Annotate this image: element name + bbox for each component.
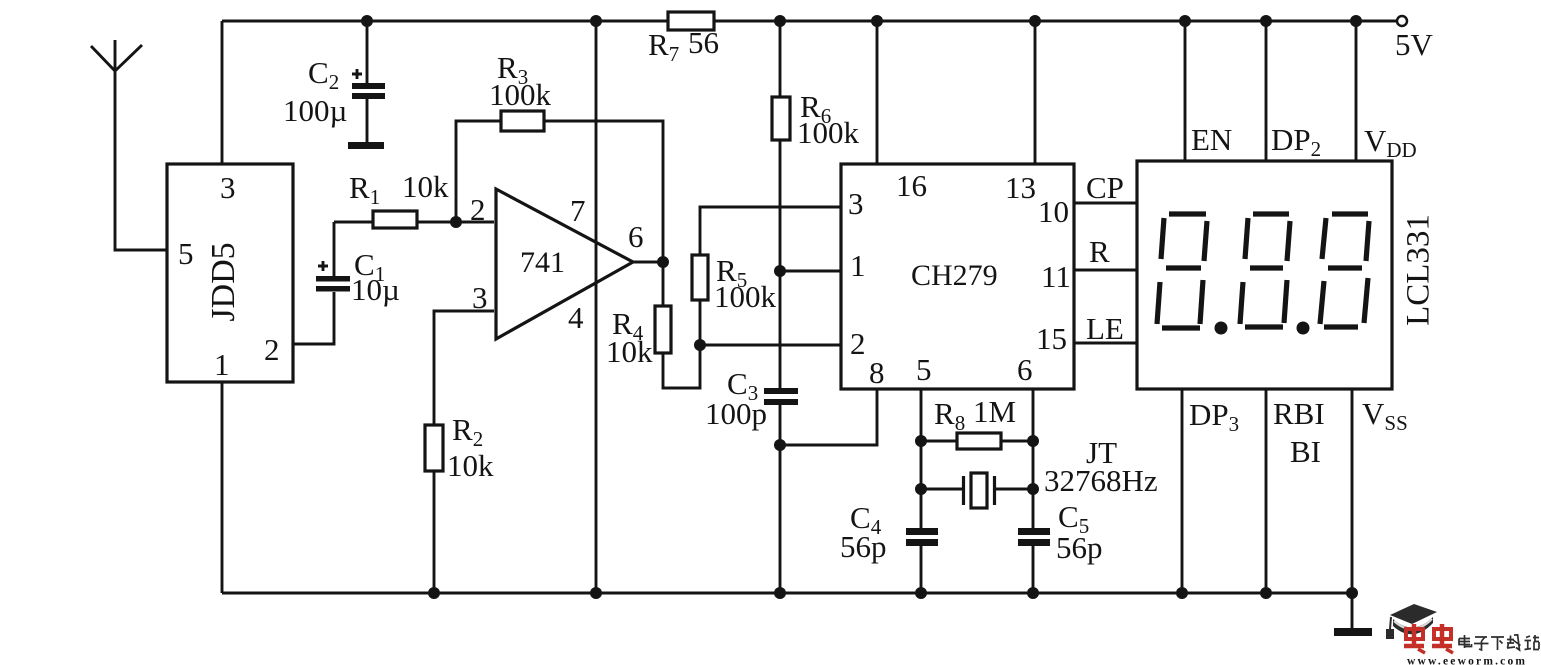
svg-text:1: 1: [850, 248, 866, 283]
node C3 pin8 junction: [774, 439, 786, 451]
svg-text:15: 15: [1036, 321, 1067, 356]
op-amp U1 741: [470, 189, 644, 339]
node R2 ground: [428, 587, 440, 599]
node power rail top: [590, 15, 602, 27]
svg-text:10k: 10k: [447, 448, 494, 483]
label R2 10k: [447, 412, 494, 483]
label R8 1M: [934, 394, 1016, 435]
svg-text:741: 741: [520, 246, 565, 279]
wire EN to rail: [1184, 21, 1187, 161]
svg-text:2: 2: [470, 192, 486, 227]
IC JDD5: [167, 164, 293, 382]
label R4 10k: [606, 306, 653, 369]
node R8 right: [1027, 435, 1039, 447]
node crystal right: [1027, 483, 1039, 495]
node C5 ground: [1027, 587, 1039, 599]
ground bar under C2: [348, 142, 384, 149]
node DP2 rail: [1260, 15, 1272, 27]
watermark chongchong red characters: [1404, 624, 1453, 653]
wire JDD5 pin3 to rail: [221, 21, 224, 164]
svg-text:100p: 100p: [705, 396, 767, 431]
svg-text:10: 10: [1038, 194, 1069, 229]
antenna: [91, 40, 167, 250]
resistor R6: [772, 21, 790, 271]
svg-text:32768Hz: 32768Hz: [1044, 463, 1158, 498]
svg-text:5V: 5V: [1395, 27, 1434, 62]
svg-text:2: 2: [850, 326, 866, 361]
wire op-amp power rail pin7 to pin4: [595, 21, 598, 593]
wire top supply rail left segment: [222, 20, 668, 23]
wire DP3 to ground rail: [1181, 389, 1184, 593]
wire JDD5 pin1 to bottom rail: [221, 382, 224, 593]
node op-amp pin2: [450, 216, 462, 228]
node R4 R5 pin2 junction: [694, 339, 706, 351]
crystal JT 32768Hz: [921, 473, 1033, 508]
svg-text:7: 7: [570, 193, 586, 228]
node top rail R6: [774, 15, 786, 27]
svg-text:10k: 10k: [606, 334, 653, 369]
resistor R7: [668, 12, 714, 30]
node VSS ground: [1346, 587, 1358, 599]
svg-text:www.eeworm.com: www.eeworm.com: [1407, 656, 1527, 665]
svg-text:3: 3: [220, 170, 236, 205]
svg-text:100k: 100k: [489, 77, 552, 112]
wire CH279 pin6 branch: [1032, 389, 1035, 593]
wire R pin11 to display: [1074, 269, 1137, 272]
node power rail bottom: [590, 587, 602, 599]
svg-text:R: R: [1089, 234, 1110, 269]
svg-text:16: 16: [896, 168, 927, 203]
resistor R8: [921, 433, 1033, 449]
wire bottom ground rail: [222, 592, 1352, 595]
label R6 100k: [797, 89, 860, 150]
svg-text:CH279: CH279: [911, 259, 998, 292]
svg-text:100k: 100k: [797, 115, 860, 150]
svg-text:BI: BI: [1290, 434, 1321, 469]
svg-text:EN: EN: [1191, 122, 1232, 157]
wire node to CH279 pin1: [780, 270, 841, 273]
svg-text:2: 2: [264, 332, 280, 367]
node R6 pin1: [774, 265, 786, 277]
label JT 32768Hz: [1044, 435, 1158, 498]
node pin16 rail: [871, 15, 883, 27]
wire op-amp pin3 input: [434, 311, 494, 425]
svg-text:JDD5: JDD5: [205, 242, 242, 321]
resistor R4: [655, 262, 671, 353]
label C2 100u: [283, 55, 347, 128]
wire VSS to ground rail: [1351, 389, 1354, 593]
svg-text:100k: 100k: [714, 279, 777, 314]
node R8 left: [915, 435, 927, 447]
node EN rail: [1179, 15, 1191, 27]
wire CH279 pin5 branch: [920, 389, 923, 593]
display decimal point 2: [1297, 322, 1310, 335]
svg-text:8: 8: [869, 355, 885, 390]
svg-text:10µ: 10µ: [351, 272, 400, 307]
wire R6 node down through C3: [779, 271, 782, 593]
label R7 56: [648, 25, 719, 66]
resistor R5: [692, 255, 708, 300]
svg-text:5: 5: [916, 352, 932, 387]
svg-text:100µ: 100µ: [283, 93, 347, 128]
node VDD rail: [1350, 15, 1362, 27]
svg-text:4: 4: [568, 300, 584, 335]
capacitor C2: [352, 21, 385, 142]
node C4 ground: [915, 587, 927, 599]
wire R2 to ground rail: [433, 471, 436, 593]
wire CP pin10 to display: [1074, 202, 1137, 205]
node DP3 ground: [1176, 587, 1188, 599]
label C5 56p: [1056, 499, 1103, 565]
resistor R2: [425, 425, 443, 471]
wire top supply rail right segment: [714, 20, 1398, 23]
node crystal left: [915, 483, 927, 495]
svg-text:6: 6: [1017, 352, 1033, 387]
wire RBI to ground rail: [1265, 389, 1268, 593]
label C4 56p: [840, 500, 887, 564]
resistor R1: [334, 211, 494, 228]
node top rail / C2: [361, 15, 373, 27]
svg-text:6: 6: [628, 219, 644, 254]
svg-text:LE: LE: [1086, 311, 1124, 346]
label C1 10u: [351, 247, 400, 307]
wire junction to CH279 pin2: [700, 344, 841, 347]
node C3 ground rail: [774, 587, 786, 599]
svg-text:RBI: RBI: [1273, 396, 1325, 431]
label R3 100k: [489, 50, 552, 112]
wire CH279 pin16 to rail: [876, 21, 879, 164]
wire R5 top to CH279 pin3: [700, 207, 841, 255]
wire CH279 pin13 to rail: [1034, 21, 1037, 164]
ground symbol: [1334, 593, 1372, 636]
svg-text:LCL331: LCL331: [1401, 214, 1437, 326]
wire DP2 to rail: [1265, 21, 1268, 161]
capacitor C1: [293, 222, 350, 344]
svg-text:56p: 56p: [840, 529, 887, 564]
svg-text:CP: CP: [1086, 170, 1124, 205]
svg-text:1M: 1M: [973, 394, 1016, 429]
capacitor C3: [764, 388, 798, 405]
svg-text:3: 3: [848, 186, 864, 221]
label R1 10k: [349, 169, 449, 209]
label C3 100p: [705, 366, 767, 431]
svg-text:10k: 10k: [402, 169, 449, 204]
svg-text:56p: 56p: [1056, 530, 1103, 565]
IC CH279: [841, 164, 1074, 390]
watermark text dianzi xiazaizhan: [1459, 634, 1539, 650]
capacitor C4: [906, 528, 938, 546]
display digit 1: [1157, 214, 1207, 328]
svg-text:56: 56: [688, 25, 719, 60]
wire R4 bottom to R5 branch: [663, 300, 700, 388]
node pin13 rail: [1029, 15, 1041, 27]
resistor R3: [501, 111, 544, 131]
svg-text:1: 1: [214, 347, 230, 382]
display decimal point 1: [1215, 322, 1228, 335]
capacitor C5: [1018, 528, 1050, 546]
svg-text:11: 11: [1041, 259, 1071, 294]
node RBI ground: [1260, 587, 1272, 599]
svg-text:5: 5: [178, 236, 194, 271]
wire LE pin15 to display: [1074, 342, 1137, 345]
wire junction to CH279 pin8: [780, 389, 877, 445]
display digit 2: [1240, 214, 1290, 327]
label R5 100k: [714, 253, 777, 314]
node op-amp output: [633, 256, 669, 268]
5V terminal: [1395, 16, 1434, 62]
display digit 3: [1320, 214, 1369, 327]
display LCL331: [1137, 161, 1437, 389]
wire VDD to rail: [1355, 21, 1358, 161]
wire R3 to output node: [544, 121, 663, 262]
wire inverting input to R3: [456, 121, 501, 222]
watermark logo graduation cap: [1386, 604, 1437, 639]
svg-text:13: 13: [1005, 170, 1036, 205]
